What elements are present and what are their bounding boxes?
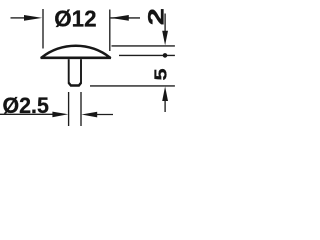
dim 2 down arrow shaft — [164, 14, 166, 33]
dim O2.5 right-pointing arrow shaft — [0, 113, 54, 115]
dim 5 up arrowhead — [162, 86, 168, 101]
cap pin left wall — [68, 59, 70, 83]
dim 2 down arrowhead — [162, 31, 168, 46]
pin bottom reference line — [90, 85, 175, 87]
cap head base line — [41, 56, 111, 59]
cap pin chamfered bottom — [69, 83, 81, 86]
dim O2.5 left extension line — [68, 92, 70, 126]
dim O12 left arrowhead — [24, 15, 42, 21]
dim O2.5 right-pointing arrowhead — [52, 112, 68, 118]
dim O12 right arrow shaft — [111, 17, 141, 19]
svg-text:5: 5 — [152, 68, 171, 80]
svg-text:2: 2 — [143, 8, 168, 25]
dim O12 right extension line — [109, 10, 111, 52]
dim O2.5 left-pointing arrowhead — [81, 112, 97, 118]
dim O12 right arrowhead — [111, 15, 129, 21]
dim chain dot terminator — [163, 53, 168, 58]
dim O2.5 right extension line — [80, 92, 82, 126]
dim 2 top reference line — [112, 45, 175, 47]
dim O12 left extension line — [42, 9, 44, 49]
dim O12 left arrow shaft — [11, 17, 27, 19]
svg-text:Ø12: Ø12 — [54, 5, 96, 31]
cap head dome outline — [42, 46, 111, 58]
dim 5 up arrow shaft — [164, 100, 166, 112]
base level reference line — [119, 54, 175, 56]
cap pin right wall — [80, 59, 82, 83]
dim O2.5 left-pointing arrow shaft — [96, 114, 113, 116]
